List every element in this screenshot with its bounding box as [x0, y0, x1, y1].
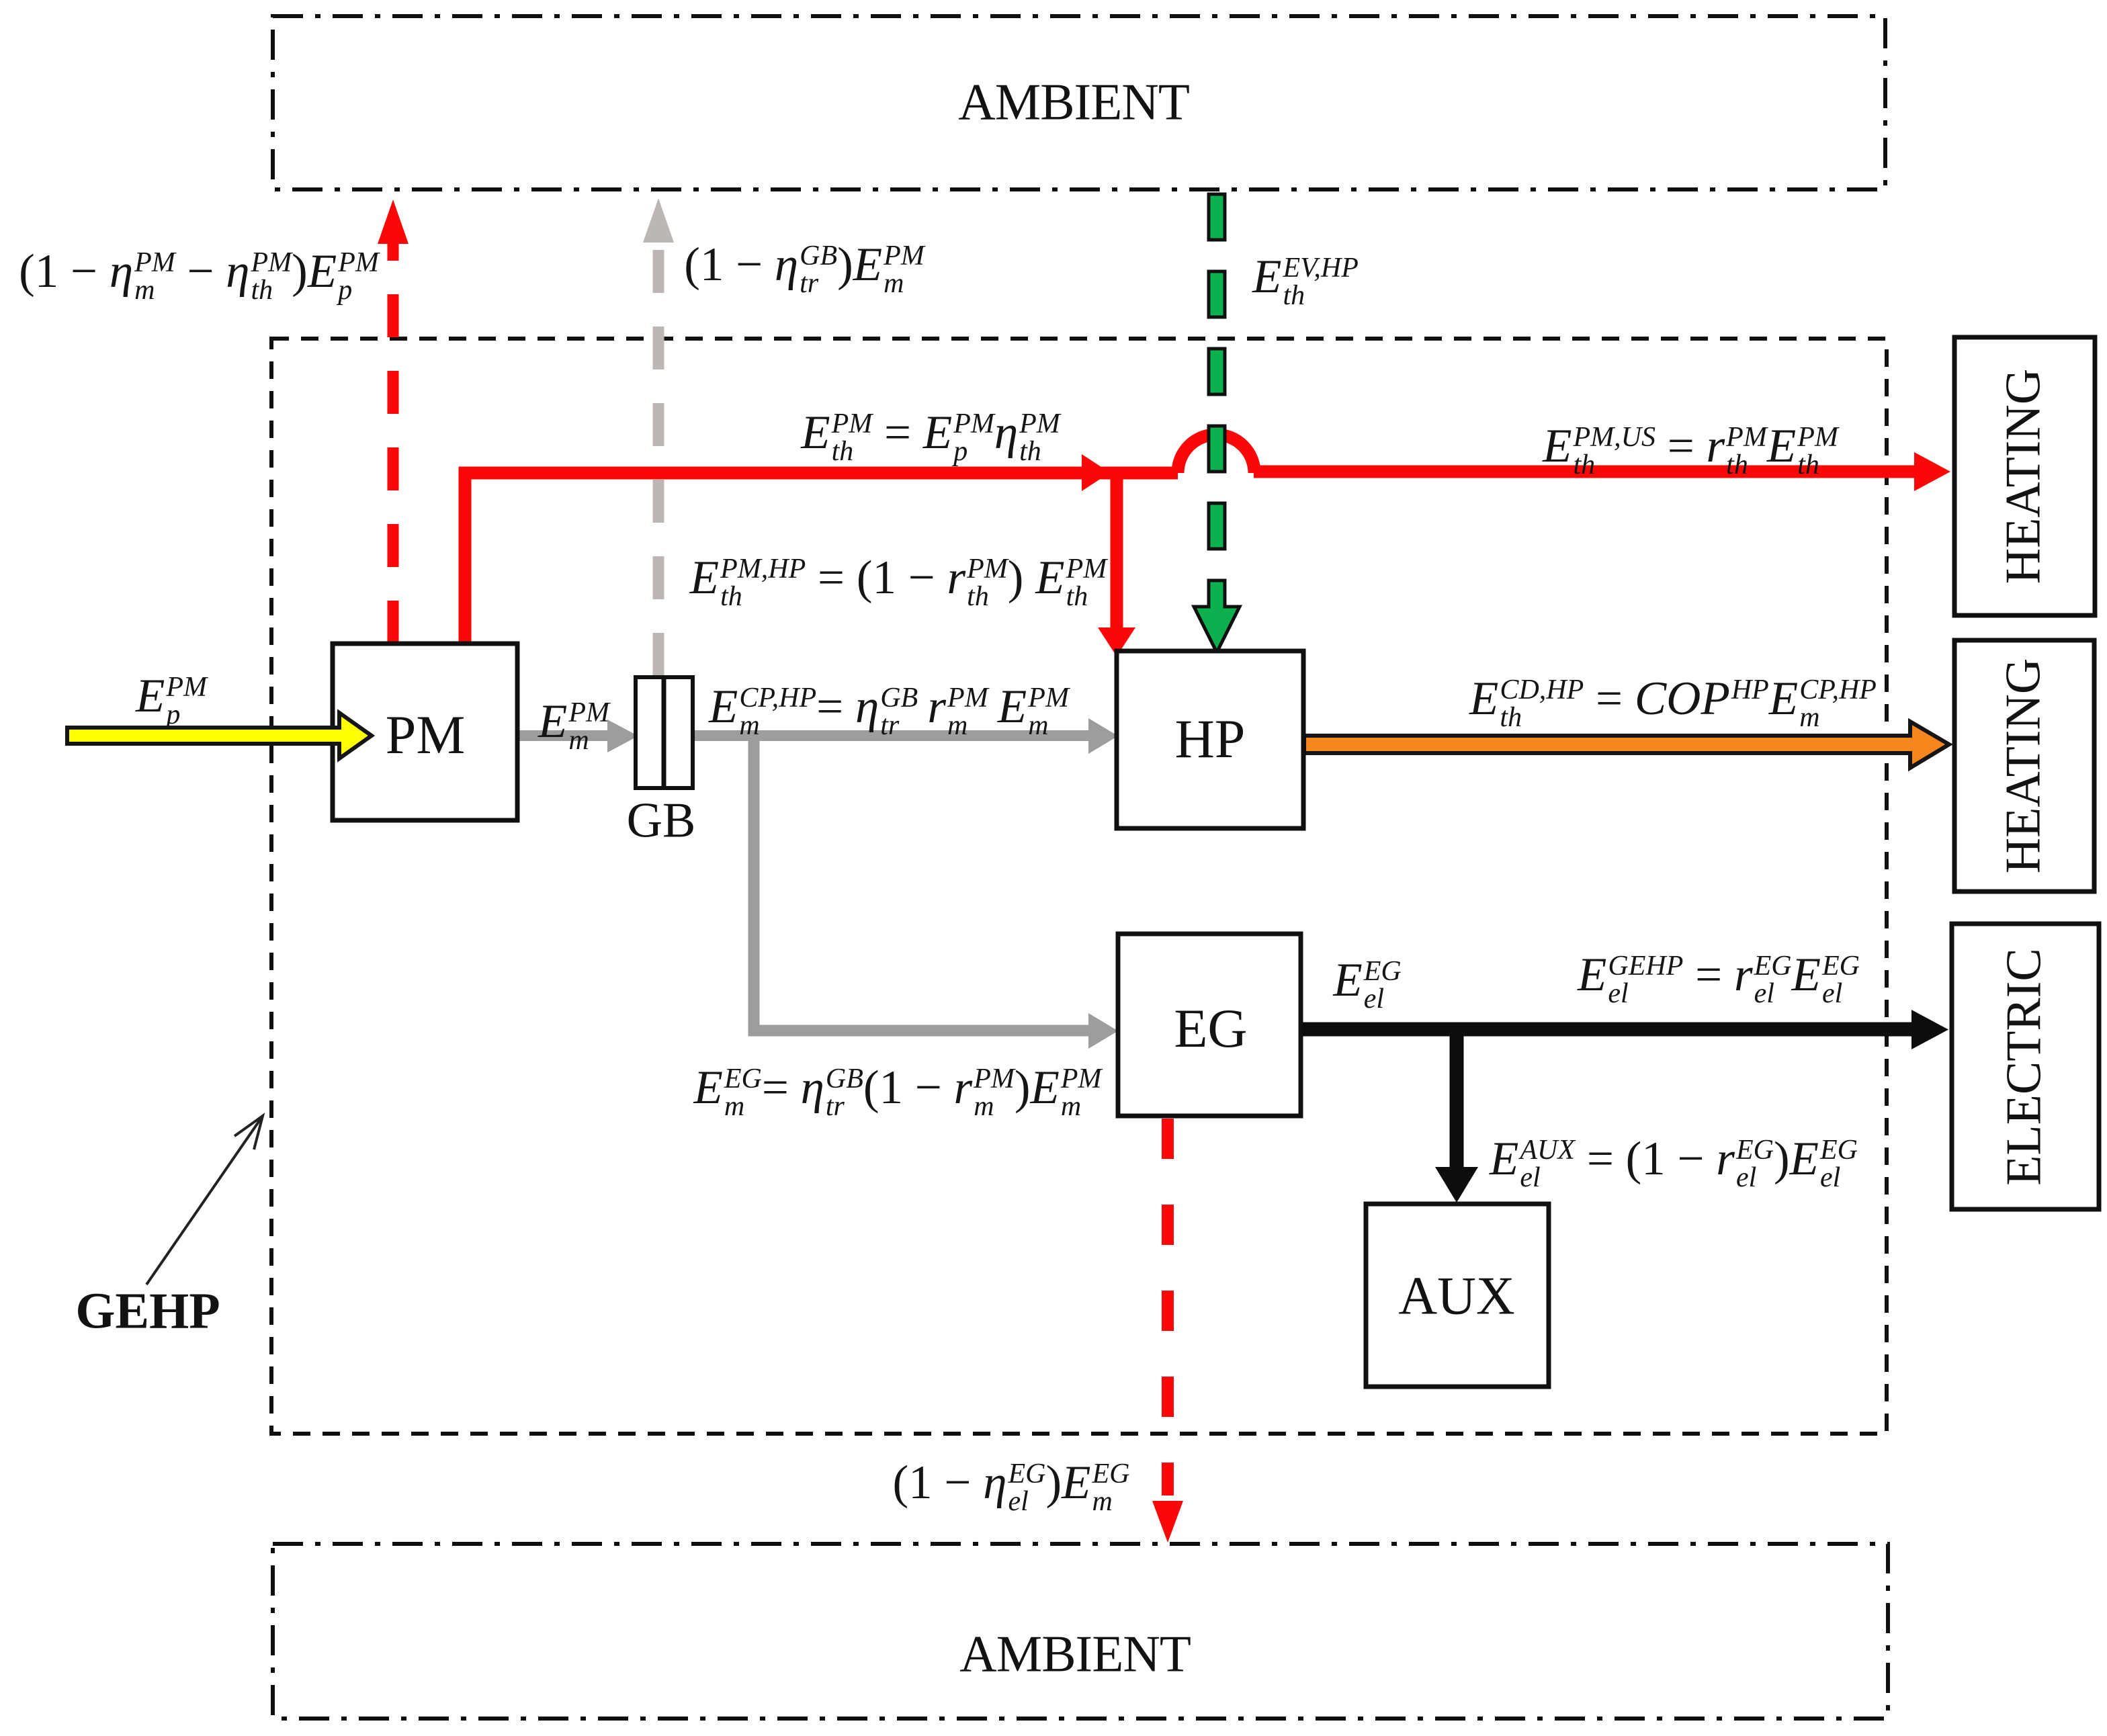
arrowhead red dashed up [378, 200, 408, 244]
arrowhead red dashed down [1152, 1501, 1183, 1543]
formula E_m^PM : PM to GB [538, 695, 609, 754]
formula E_el^EG [1333, 953, 1401, 1012]
box EG electric generator [1118, 934, 1301, 1116]
label EG [1174, 997, 1247, 1060]
box PM prime mover [333, 644, 517, 820]
arrowhead red into junction [1082, 454, 1110, 491]
wire gray: PM to GB mechanical [518, 720, 638, 752]
formula E_th^PM,HP = (1 - r_th^PM) E_th^PM [690, 551, 1107, 610]
box HP heat pump [1117, 651, 1303, 828]
wire red dashed: PM losses to ambient [388, 242, 399, 644]
arrow orange: HP condenser heat to HEATING lower [1304, 722, 1949, 768]
formula (1 - eta_m^PM - eta_th^PM)E_p^PM : PM loss to ambient [19, 245, 379, 304]
label AMBIENT top [958, 73, 1189, 132]
label HP [1175, 707, 1246, 771]
formula E_th^CD,HP = COP^HP E_m^CP,HP [1469, 672, 1877, 731]
wire gray: branch down from tee to EG [754, 736, 1118, 1049]
arrowhead red into HEATING upper [1914, 452, 1950, 491]
formula E_th^PM = E_p^PM eta_th^PM [801, 406, 1060, 465]
box AMBIENT bottom (dash-dot boundary) [273, 1544, 1888, 1719]
box GEHP system boundary (dashed) [271, 339, 1887, 1434]
wire gray: GB to HP with branch tee [693, 718, 1118, 754]
label AUX [1398, 1266, 1514, 1328]
wire green dashed: ambient heat into HP evaporator [1209, 194, 1225, 549]
wire gray dashed: GB losses to ambient [653, 241, 664, 676]
box HEATING upper user [1954, 337, 2095, 615]
box ELECTRIC user [1952, 924, 2099, 1209]
box AMBIENT top (dash-dot boundary) [273, 16, 1885, 189]
formula E_el^GEHP = r_el^EG E_el^EG [1578, 948, 1860, 1007]
formula E_m^CP,HP = eta_tr^GB r_m^PM E_m^PM [709, 680, 1069, 739]
formula (1 - eta_tr^GB)E_m^PM : GB loss to ambient [684, 238, 924, 297]
label ELECTRIC rotated [1996, 948, 2053, 1186]
arrowhead gray dashed up [643, 198, 674, 243]
formula E_m^EG = eta_tr^GB (1 - r_m^PM) E_m^PM [693, 1061, 1101, 1120]
wire red solid: PM top riser, main thermal line with tee junction [465, 472, 1920, 645]
box AUX auxiliaries [1366, 1204, 1549, 1387]
box GB gearbox [636, 677, 693, 788]
box HEATING lower user [1954, 640, 2094, 892]
label GB [627, 793, 696, 850]
label HEATING upper rotated [1995, 369, 2053, 584]
wire red hop (semicircle over green line) [1178, 435, 1254, 473]
formula E_el^AUX = (1 - r_el^EG)E_el^EG [1490, 1132, 1858, 1191]
wire red dashed: EG losses to ambient bottom [1162, 1119, 1174, 1495]
wire black: EG electric output to ELECTRIC with tee [1301, 1010, 1948, 1049]
formula (1 - eta_el^EG)E_m^EG : EG loss to ambient [893, 1456, 1130, 1515]
formula E_th^PM,US = r_th^PM E_th^PM [1543, 419, 1838, 478]
arrowhead red down into HP [1098, 627, 1135, 656]
label HEATING lower rotated [1995, 658, 2053, 874]
formula E_p^PM : fuel input [136, 669, 207, 728]
arrow thin pointer from GEHP label to boundary [146, 1116, 263, 1285]
label AMBIENT bottom [959, 1624, 1191, 1684]
wire black: branch down to AUX [1435, 1029, 1478, 1203]
label PM [386, 703, 466, 767]
formula E_th^EV,HP : evaporator heat label [1252, 250, 1359, 309]
arrow yellow fuel input E_p^PM into PM [67, 713, 372, 758]
arrowhead green into HP [1194, 580, 1240, 652]
label GEHP bold [75, 1283, 220, 1341]
